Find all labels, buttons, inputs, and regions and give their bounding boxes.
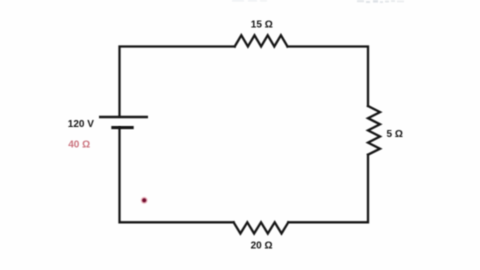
wire: right side lower segment xyxy=(288,155,368,223)
battery B1 negative plate xyxy=(111,126,133,129)
svg-text:20 Ω: 20 Ω xyxy=(251,240,273,251)
wire: top side right segment xyxy=(288,47,369,107)
battery B1 positive plate xyxy=(99,116,148,119)
svg-text:120 V: 120 V xyxy=(68,119,94,130)
svg-text:15 Ω: 15 Ω xyxy=(251,19,273,30)
svg-text:5 Ω: 5 Ω xyxy=(387,129,403,140)
node marker: red dot xyxy=(141,197,148,204)
resistor R1 15 ohm (top) xyxy=(235,35,288,46)
resistor R2 5 ohm (right) xyxy=(368,106,380,155)
faint cropped text remnant top edge xyxy=(232,0,404,3)
resistor R3 20 ohm (bottom) xyxy=(234,222,289,233)
wire: bottom left segment xyxy=(120,128,234,223)
svg-text:40 Ω: 40 Ω xyxy=(68,140,90,151)
wire: top side left segment xyxy=(120,47,235,117)
